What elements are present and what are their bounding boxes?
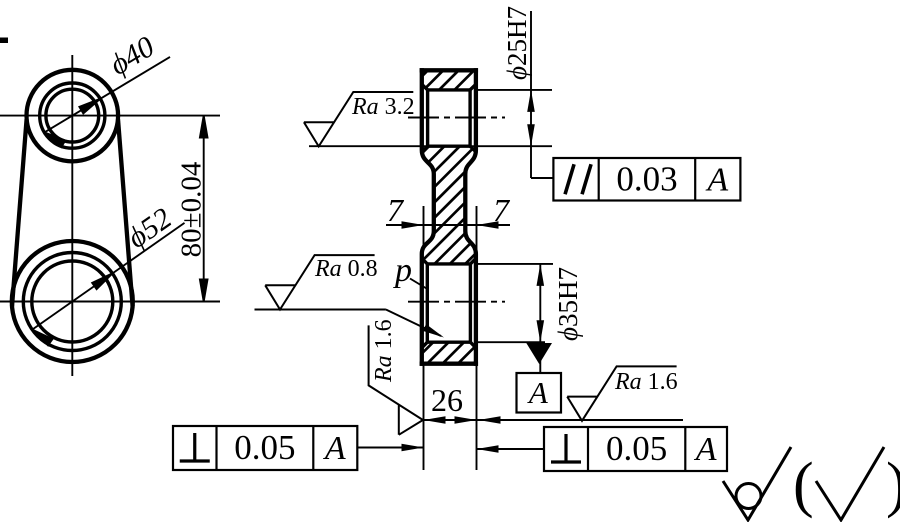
svg-text:0.05: 0.05 [234, 428, 295, 467]
svg-text:A: A [694, 431, 717, 468]
svg-text:7: 7 [387, 192, 405, 228]
svg-text:Ra 3.2: Ra 3.2 [351, 94, 415, 120]
svg-text:): ) [886, 451, 900, 519]
svg-text:A: A [527, 375, 549, 410]
svg-text:80±0.04: 80±0.04 [176, 161, 208, 257]
svg-text:Ra 1.6: Ra 1.6 [614, 369, 678, 395]
svg-text:0.05: 0.05 [606, 429, 667, 468]
svg-text:ϕ35H7: ϕ35H7 [553, 267, 583, 341]
svg-text:Ra 0.8: Ra 0.8 [314, 256, 378, 282]
svg-text:(: ( [793, 451, 814, 519]
svg-text:ϕ25H7: ϕ25H7 [502, 6, 532, 80]
svg-text:0.03: 0.03 [616, 159, 677, 198]
svg-text:Ra 1.6: Ra 1.6 [371, 319, 397, 383]
svg-text:A: A [705, 161, 728, 198]
svg-text:A: A [323, 430, 346, 467]
svg-text:7: 7 [493, 192, 511, 228]
svg-text:26: 26 [431, 382, 463, 418]
svg-text:p: p [393, 252, 412, 289]
